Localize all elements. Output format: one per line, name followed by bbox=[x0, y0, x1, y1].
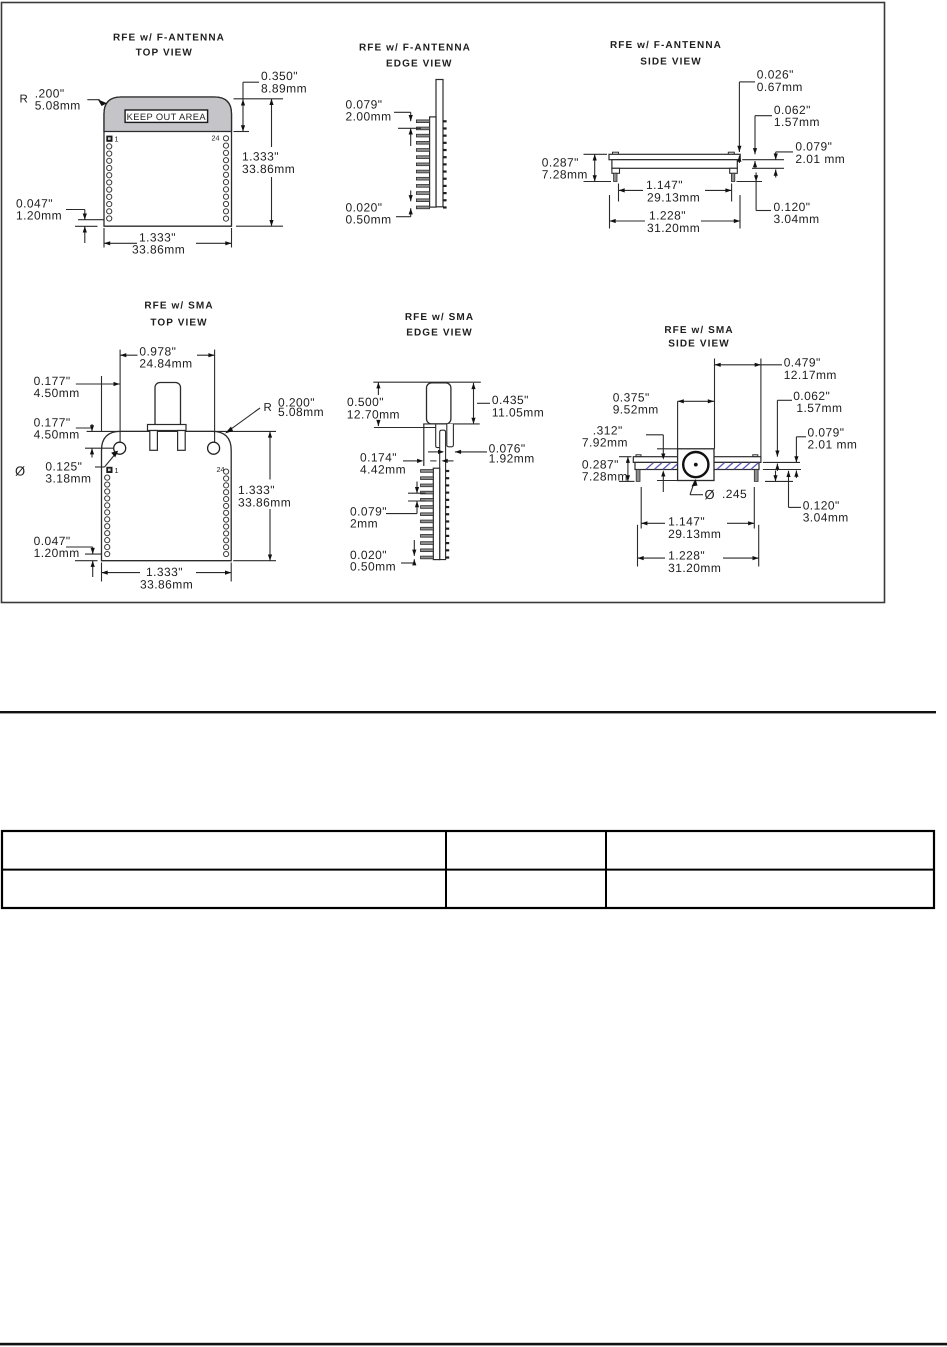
table row divider bbox=[2, 869, 934, 871]
svg-text:4.42mm: 4.42mm bbox=[360, 463, 406, 477]
right pin circles bbox=[223, 136, 228, 141]
PCB board (edge view) bbox=[436, 80, 443, 207]
right pin circles (SMA top view) bbox=[224, 469, 229, 474]
barrel bottom line bbox=[423, 423, 480, 425]
svg-text:RFE w/ F-ANTENNA: RFE w/ F-ANTENNA bbox=[359, 43, 471, 54]
svg-text:8.89mm: 8.89mm bbox=[261, 82, 307, 96]
svg-text:2mm: 2mm bbox=[350, 517, 378, 531]
svg-text:RFE w/ SMA: RFE w/ SMA bbox=[144, 301, 213, 312]
extension line last pin row (SMA) bbox=[85, 553, 102, 555]
dim 1.333in / 33.86mm (module height, right) bbox=[233, 560, 276, 562]
svg-text:.245: .245 bbox=[722, 487, 747, 501]
svg-text:2.00mm: 2.00mm bbox=[346, 110, 392, 124]
svg-text:2.01 mm: 2.01 mm bbox=[808, 438, 858, 452]
standoff bump right bbox=[728, 152, 734, 154]
svg-text:1: 1 bbox=[115, 466, 119, 475]
keep-out gray band bbox=[104, 97, 232, 132]
extension line block top left bbox=[657, 448, 678, 450]
PCB board (SMA side view) bbox=[633, 457, 761, 463]
extension line keep-out bottom bbox=[234, 131, 250, 133]
extension line board bottom right (SMA) bbox=[763, 461, 800, 463]
table outer border bbox=[2, 831, 934, 908]
extension line bracket edge down bbox=[430, 460, 436, 462]
svg-text:4.50mm: 4.50mm bbox=[34, 386, 80, 400]
extension line below barrel bbox=[374, 427, 436, 429]
extension line block bottom left bbox=[657, 480, 678, 482]
extension line module bottom left bbox=[75, 225, 98, 227]
module outline (top view, SMA) bbox=[102, 431, 232, 560]
SMA barrel (edge view) bbox=[427, 383, 451, 424]
module outline (top view, F-antenna) bbox=[104, 97, 232, 226]
solder nubs (right row) bbox=[443, 120, 447, 122]
dim 1.147in / 29.13mm bbox=[618, 184, 620, 202]
table column divider 1 bbox=[445, 831, 447, 908]
SMA center pin / PCB board (SMA edge view) bbox=[440, 430, 446, 559]
svg-text:1.57mm: 1.57mm bbox=[774, 115, 820, 129]
pin 1 square marker (SMA top view) bbox=[106, 467, 112, 473]
header body (edge view) bbox=[430, 117, 436, 207]
SMA coax circle bbox=[683, 452, 708, 477]
svg-text:RFE w/ SMA: RFE w/ SMA bbox=[664, 325, 733, 336]
svg-text:3.04mm: 3.04mm bbox=[803, 511, 849, 525]
SMA bracket left leg inner bbox=[436, 424, 440, 448]
svg-text:33.86mm: 33.86mm bbox=[242, 162, 295, 176]
svg-text:R: R bbox=[20, 94, 28, 106]
svg-text:11.05mm: 11.05mm bbox=[492, 406, 544, 420]
KEEP OUT AREA label box bbox=[125, 110, 208, 122]
header pins (SMA edge view) bbox=[421, 470, 434, 473]
svg-text:TOP VIEW: TOP VIEW bbox=[136, 48, 193, 59]
module top edge extension bbox=[87, 430, 276, 432]
svg-text:KEEP OUT AREA: KEEP OUT AREA bbox=[127, 112, 207, 122]
svg-text:SIDE VIEW: SIDE VIEW bbox=[640, 57, 702, 68]
svg-text:33.86mm: 33.86mm bbox=[132, 243, 185, 257]
svg-text:7.28mm: 7.28mm bbox=[542, 168, 588, 182]
table column divider 2 bbox=[605, 831, 607, 908]
svg-text:0.67mm: 0.67mm bbox=[757, 80, 803, 94]
svg-text:0.50mm: 0.50mm bbox=[346, 213, 392, 227]
dim 1.333in / 33.86mm (module width, bottom SMA) bbox=[101, 563, 103, 582]
left pin circles bbox=[107, 144, 112, 149]
svg-text:1.20mm: 1.20mm bbox=[16, 209, 62, 223]
svg-text:3.04mm: 3.04mm bbox=[774, 212, 820, 226]
mounting hole left bbox=[114, 442, 126, 454]
extension line hole center left bbox=[85, 447, 113, 449]
SMA leg right bbox=[178, 431, 186, 451]
header body (side view) bbox=[612, 160, 737, 169]
svg-text:1.57mm: 1.57mm bbox=[796, 401, 842, 415]
dim 1.228in / 31.20mm (SMA side) bbox=[637, 525, 639, 567]
svg-text:EDGE VIEW: EDGE VIEW bbox=[406, 328, 473, 339]
svg-text:1: 1 bbox=[115, 135, 119, 144]
svg-text:9.52mm: 9.52mm bbox=[613, 403, 659, 417]
svg-text:5.08mm: 5.08mm bbox=[278, 405, 324, 419]
solder nubs (SMA edge view) bbox=[446, 470, 450, 472]
svg-text:1.92mm: 1.92mm bbox=[489, 452, 535, 466]
header pins (left row) bbox=[416, 120, 429, 123]
SMA leg left bbox=[150, 431, 158, 451]
svg-text:SIDE VIEW: SIDE VIEW bbox=[668, 339, 730, 350]
pin left (SMA side view) bbox=[636, 470, 640, 482]
extension line header bottom right bbox=[752, 167, 784, 169]
dim 1.228in / 31.20mm bbox=[609, 195, 611, 229]
svg-text:29.13mm: 29.13mm bbox=[647, 191, 700, 205]
svg-text:29.13mm: 29.13mm bbox=[668, 527, 721, 541]
svg-text:3.18mm: 3.18mm bbox=[45, 472, 91, 486]
pin left (side view) bbox=[614, 173, 617, 181]
dim 1.333in / 33.86mm (module height, right) bbox=[234, 98, 284, 100]
header end shroud right bbox=[730, 168, 738, 173]
horizontal rule upper bbox=[0, 711, 936, 713]
svg-text:TOP VIEW: TOP VIEW bbox=[150, 318, 207, 329]
hatching (PCB section) bbox=[646, 463, 653, 470]
svg-text:RFE w/ SMA: RFE w/ SMA bbox=[405, 312, 474, 323]
svg-text:33.86mm: 33.86mm bbox=[238, 496, 291, 510]
extension line last pin row bbox=[78, 219, 104, 221]
extension line body bottom right (SMA) bbox=[763, 469, 801, 471]
SMA center dot bbox=[694, 463, 698, 467]
svg-text:0.50mm: 0.50mm bbox=[350, 560, 396, 574]
svg-text:Ø: Ø bbox=[705, 487, 715, 502]
svg-text:31.20mm: 31.20mm bbox=[668, 561, 721, 575]
svg-text:12.70mm: 12.70mm bbox=[347, 408, 400, 422]
svg-text:EDGE VIEW: EDGE VIEW bbox=[386, 59, 453, 70]
svg-text:33.86mm: 33.86mm bbox=[140, 578, 193, 592]
drawing sheet border bbox=[2, 3, 885, 603]
svg-text:24.84mm: 24.84mm bbox=[139, 357, 192, 371]
header end shroud left bbox=[612, 168, 620, 173]
SMA connector block (side view) bbox=[678, 449, 714, 481]
svg-text:RFE w/ F-ANTENNA: RFE w/ F-ANTENNA bbox=[113, 33, 225, 44]
SMA flange bbox=[148, 425, 187, 431]
svg-text:12.17mm: 12.17mm bbox=[784, 368, 837, 382]
SMA antenna barrel (top view) bbox=[155, 383, 181, 429]
extension line module bottom left (SMA) bbox=[75, 560, 98, 562]
horizontal rule bottom bbox=[0, 1343, 947, 1346]
svg-text:5.08mm: 5.08mm bbox=[35, 99, 81, 113]
svg-text:1.20mm: 1.20mm bbox=[34, 546, 80, 560]
left pin circles (SMA top view) bbox=[105, 475, 110, 480]
svg-text:4.50mm: 4.50mm bbox=[34, 428, 80, 442]
PCB board (side view) bbox=[609, 154, 740, 159]
standoff bump left (SMA side) bbox=[636, 455, 641, 457]
svg-text:Ø: Ø bbox=[15, 464, 25, 479]
header body (SMA edge view) bbox=[433, 468, 439, 559]
dim 1.333in / 33.86mm (module width, bottom) bbox=[103, 228, 105, 248]
extension line board bottom right bbox=[742, 159, 784, 161]
pin right (SMA side view) bbox=[754, 470, 758, 482]
standoff bump left bbox=[613, 152, 619, 154]
barrel top extension line bbox=[373, 381, 481, 383]
extension line module left edge up bbox=[101, 376, 103, 431]
standoff bump right (SMA side) bbox=[753, 455, 758, 457]
pin right (side view) bbox=[731, 173, 734, 181]
SMA bracket right leg bbox=[447, 424, 454, 447]
SMA bracket left leg outer bbox=[423, 424, 425, 466]
header body (SMA side view) bbox=[635, 462, 759, 469]
svg-text:RFE w/ F-ANTENNA: RFE w/ F-ANTENNA bbox=[610, 40, 722, 51]
svg-text:R: R bbox=[264, 402, 272, 414]
svg-text:2.01 mm: 2.01 mm bbox=[795, 152, 845, 166]
svg-text:31.20mm: 31.20mm bbox=[647, 221, 700, 235]
svg-text:24: 24 bbox=[212, 134, 220, 143]
dim 1.147in / 29.13mm (SMA side) bbox=[640, 487, 642, 529]
mounting hole right bbox=[208, 442, 220, 454]
svg-text:7.92mm: 7.92mm bbox=[582, 436, 628, 450]
pin 1 square marker bbox=[106, 136, 112, 142]
